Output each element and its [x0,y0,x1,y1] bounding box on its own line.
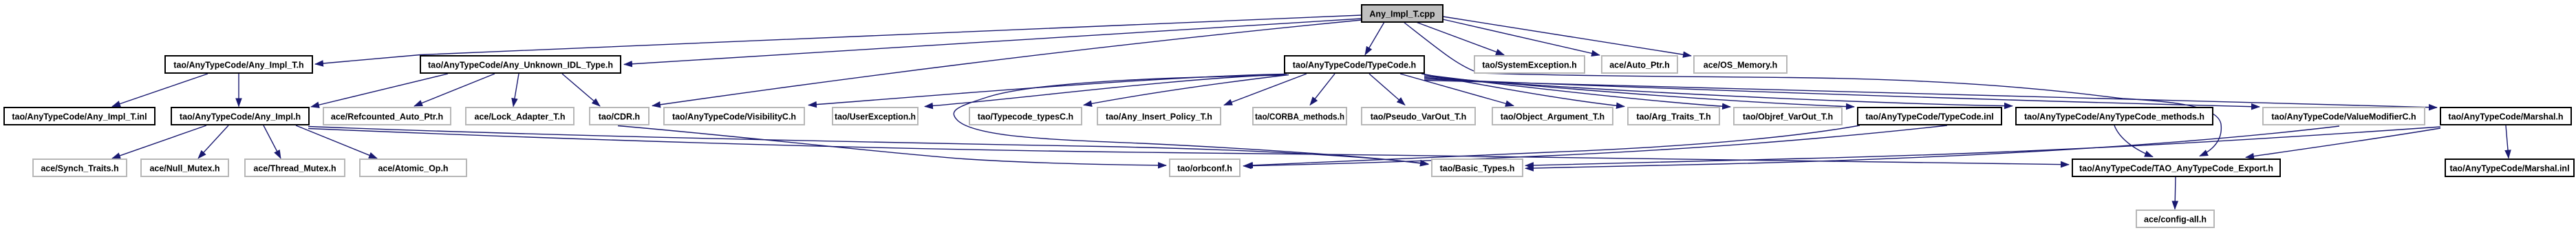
svg-text:ace/Auto_Ptr.h: ace/Auto_Ptr.h [1609,61,1670,70]
node tao/Pseudo_VarOut_T.h [1362,108,1475,125]
edge TypeCode.h -> orbconf.h (loop around Typecode_typesC.h) [954,75,1428,164]
node tao/SystemException.h [1474,56,1585,73]
svg-text:tao/AnyTypeCode/Any_Impl.h: tao/AnyTypeCode/Any_Impl.h [180,112,301,122]
svg-text:tao/SystemException.h: tao/SystemException.h [1482,61,1577,70]
svg-text:ace/Lock_Adapter_T.h: ace/Lock_Adapter_T.h [475,112,566,122]
svg-text:tao/AnyTypeCode/TypeCode.inl: tao/AnyTypeCode/TypeCode.inl [1865,112,1993,122]
edge TypeCode.h -> UserException.h [925,74,1287,107]
edge TypeCode.h -> ValueModifierC.h [1424,79,2260,108]
svg-text:tao/AnyTypeCode/VisibilityC.h: tao/AnyTypeCode/VisibilityC.h [672,112,796,122]
edge Any_Impl_T.h -> Any_Impl.h [238,74,239,107]
node tao/UserException.h [833,108,918,125]
edge TypeCode.h -> TypeCode.inl [1424,76,1854,108]
node tao/AnyTypeCode/TAO_AnyTypeCode_Export.h [2072,159,2280,176]
svg-text:tao/AnyTypeCode/Any_Unknown_ID: tao/AnyTypeCode/Any_Unknown_IDL_Type.h [428,61,613,70]
edge TypeCode.h -> Objref_VarOut_T.h [1424,75,1730,108]
svg-text:tao/Pseudo_VarOut_T.h: tao/Pseudo_VarOut_T.h [1371,112,1467,122]
edge Any_Impl_T.cpp -> CDR.h [652,20,1362,106]
svg-text:tao/AnyTypeCode/ValueModifierC: tao/AnyTypeCode/ValueModifierC.h [2271,112,2416,122]
edge Marshal.h -> TAO_AnyTypeCode_Export.h [2246,128,2440,157]
node ace/Lock_Adapter_T.h [466,108,574,125]
node ace/config-all.h [2136,210,2214,227]
edge Any_Impl.h -> Synch_Traits.h [112,125,206,159]
edge CDR.h -> orbconf.h [618,126,1166,166]
svg-text:tao/AnyTypeCode/Any_Impl_T.h: tao/AnyTypeCode/Any_Impl_T.h [173,61,303,70]
svg-text:tao/CORBA_methods.h: tao/CORBA_methods.h [1255,112,1344,122]
svg-text:tao/AnyTypeCode/Marshal.inl: tao/AnyTypeCode/Marshal.inl [2449,164,2569,174]
svg-text:tao/orbconf.h: tao/orbconf.h [1177,164,1232,174]
svg-text:tao/AnyTypeCode/Marshal.h: tao/AnyTypeCode/Marshal.h [2448,112,2563,122]
node tao/AnyTypeCode/Any_Impl_T.h [165,56,312,73]
edge Any_Impl_T.cpp -> Auto_Ptr.h [1443,19,1600,55]
edge TAO_AnyTypeCode_Export.h -> config-all.h [2175,176,2176,210]
node tao/CORBA_methods.h [1253,108,1346,125]
node tao/AnyTypeCode/Any_Impl_T.inl [4,108,155,125]
edge AnyTypeCode_methods.h -> TAO_AnyTypeCode_Export.h [2114,125,2153,157]
node tao/Basic_Types.h [1432,159,1523,176]
node tao/AnyTypeCode/TypeCode.h [1285,56,1424,73]
node tao/AnyTypeCode/ValueModifierC.h [2263,108,2425,125]
node Any_Impl_T.cpp [1362,5,1443,22]
edge Any_Unknown_IDL_Type.h -> Lock_Adapter_T.h [513,74,519,107]
node tao/AnyTypeCode/Any_Unknown_IDL_Type.h [420,56,621,73]
svg-text:tao/Typecode_typesC.h: tao/Typecode_typesC.h [978,112,1073,122]
svg-text:tao/Any_Insert_Policy_T.h: tao/Any_Insert_Policy_T.h [1106,112,1212,122]
node ace/Auto_Ptr.h [1602,56,1677,73]
edge TypeCode.h -> VisibilityC.h [808,74,1285,105]
node tao/AnyTypeCode/TypeCode.inl [1858,108,2001,125]
node ace/Thread_Mutex.h [245,159,345,176]
edge TypeCode.h -> Object_Argument_T.h [1400,74,1514,106]
node tao/orbconf.h [1170,159,1240,176]
svg-text:ace/OS_Memory.h: ace/OS_Memory.h [1704,61,1777,70]
edge Any_Unknown_IDL_Type.h -> Refcounted_Auto_Ptr.h [414,74,495,106]
node ace/Synch_Traits.h [33,159,127,176]
edge TypeCode.h -> Any_Insert_Policy_T.h [1224,74,1307,105]
edge TypeCode.inl -> orbconf.h (second strand) [1245,125,1860,165]
node tao/AnyTypeCode/Marshal.inl [2445,159,2574,176]
svg-text:tao/AnyTypeCode/Any_Impl_T.inl: tao/AnyTypeCode/Any_Impl_T.inl [12,112,147,122]
node tao/AnyTypeCode/VisibilityC.h [664,108,804,125]
edge Marshal.h -> Marshal.inl [2506,125,2509,159]
svg-text:tao/Basic_Types.h: tao/Basic_Types.h [1440,164,1515,174]
edge TypeCode.h -> AnyTypeCode_methods.h [1424,78,2012,106]
edge TypeCode.h -> Arg_Traits_T.h [1421,74,1624,107]
node tao/Any_Insert_Policy_T.h [1097,108,1221,125]
node ace/Atomic_Op.h [360,159,466,176]
edge Any_Impl_T.cpp -> OS_Memory.h [1443,17,1691,56]
edge Any_Impl.h -> Null_Mutex.h [198,125,228,159]
svg-text:tao/Arg_Traits_T.h: tao/Arg_Traits_T.h [1636,112,1710,122]
node ace/Refcounted_Auto_Ptr.h [323,108,451,125]
edge Any_Impl_T.cpp -> TAO_AnyTypeCode_Export.h (around AnyTypeCode_methods.h) [1404,22,2221,156]
node tao/AnyTypeCode/Marshal.h [2440,108,2571,125]
svg-text:tao/UserException.h: tao/UserException.h [835,112,916,122]
svg-text:tao/Objref_VarOut_T.h: tao/Objref_VarOut_T.h [1743,112,1833,122]
svg-text:tao/CDR.h: tao/CDR.h [599,112,640,122]
svg-text:ace/Refcounted_Auto_Ptr.h: ace/Refcounted_Auto_Ptr.h [331,112,443,122]
node tao/AnyTypeCode/AnyTypeCode_methods.h [2016,108,2213,125]
svg-text:Any_Impl_T.cpp: Any_Impl_T.cpp [1369,10,1435,19]
edge TypeCode.h -> Typecode_typesC.h [1084,75,1289,105]
edge Any_Impl.h -> TAO_AnyTypeCode_Export.h [308,129,2069,165]
edge Any_Impl.h -> Atomic_Op.h [296,125,377,159]
edge TypeCode.h -> Marshal.h [1424,81,2437,108]
edge TypeCode.h -> CORBA_methods.h [1310,74,1335,105]
edge Marshal.h -> Basic_Types.h [1525,127,2440,165]
edge TypeCode.h -> Pseudo_VarOut_T.h [1369,74,1405,105]
edge Any_Impl.h -> Thread_Mutex.h [264,125,281,159]
edge Any_Impl.h -> Basic_Types.h [308,127,1428,165]
node tao/CDR.h [590,108,649,125]
svg-text:ace/Atomic_Op.h: ace/Atomic_Op.h [378,164,448,174]
node tao/Arg_Traits_T.h [1628,108,1719,125]
edge Any_Impl_T.h -> Any_Impl_T.inl [112,74,208,107]
edge Any_Unknown_IDL_Type.h -> Any_Impl.h [311,74,448,107]
node tao/Typecode_typesC.h [969,108,1082,125]
svg-text:tao/Object_Argument_T.h: tao/Object_Argument_T.h [1501,112,1604,122]
svg-text:ace/Thread_Mutex.h: ace/Thread_Mutex.h [253,164,336,174]
edge Any_Impl_T.cpp -> SystemException.h [1416,22,1504,55]
node ace/Null_Mutex.h [141,159,228,176]
svg-text:tao/AnyTypeCode/TypeCode.h: tao/AnyTypeCode/TypeCode.h [1293,61,1416,70]
node tao/Objref_VarOut_T.h [1734,108,1842,125]
node ace/OS_Memory.h [1694,56,1787,73]
edge TypeCode.inl -> orbconf.h [1243,125,1947,166]
node tao/AnyTypeCode/Any_Impl.h [171,108,309,125]
svg-text:ace/Synch_Traits.h: ace/Synch_Traits.h [41,164,118,174]
edge Any_Impl_T.cpp -> Any_Impl_T.h [315,15,1362,64]
svg-text:ace/Null_Mutex.h: ace/Null_Mutex.h [149,164,219,174]
svg-text:tao/AnyTypeCode/TAO_AnyTypeCod: tao/AnyTypeCode/TAO_AnyTypeCode_Export.h [2079,164,2273,174]
edge Any_Impl_T.cpp -> TypeCode.h [1365,22,1384,55]
svg-text:ace/config-all.h: ace/config-all.h [2144,215,2207,225]
edge Any_Impl_T.cpp -> Any_Unknown_IDL_Type.h [624,19,1362,65]
edge Any_Unknown_IDL_Type.h -> CDR.h [562,74,600,106]
svg-text:tao/AnyTypeCode/AnyTypeCode_me: tao/AnyTypeCode/AnyTypeCode_methods.h [2024,112,2204,122]
node tao/Object_Argument_T.h [1492,108,1613,125]
edge ValueModifierC.h -> Basic_Types.h [1525,126,2339,168]
